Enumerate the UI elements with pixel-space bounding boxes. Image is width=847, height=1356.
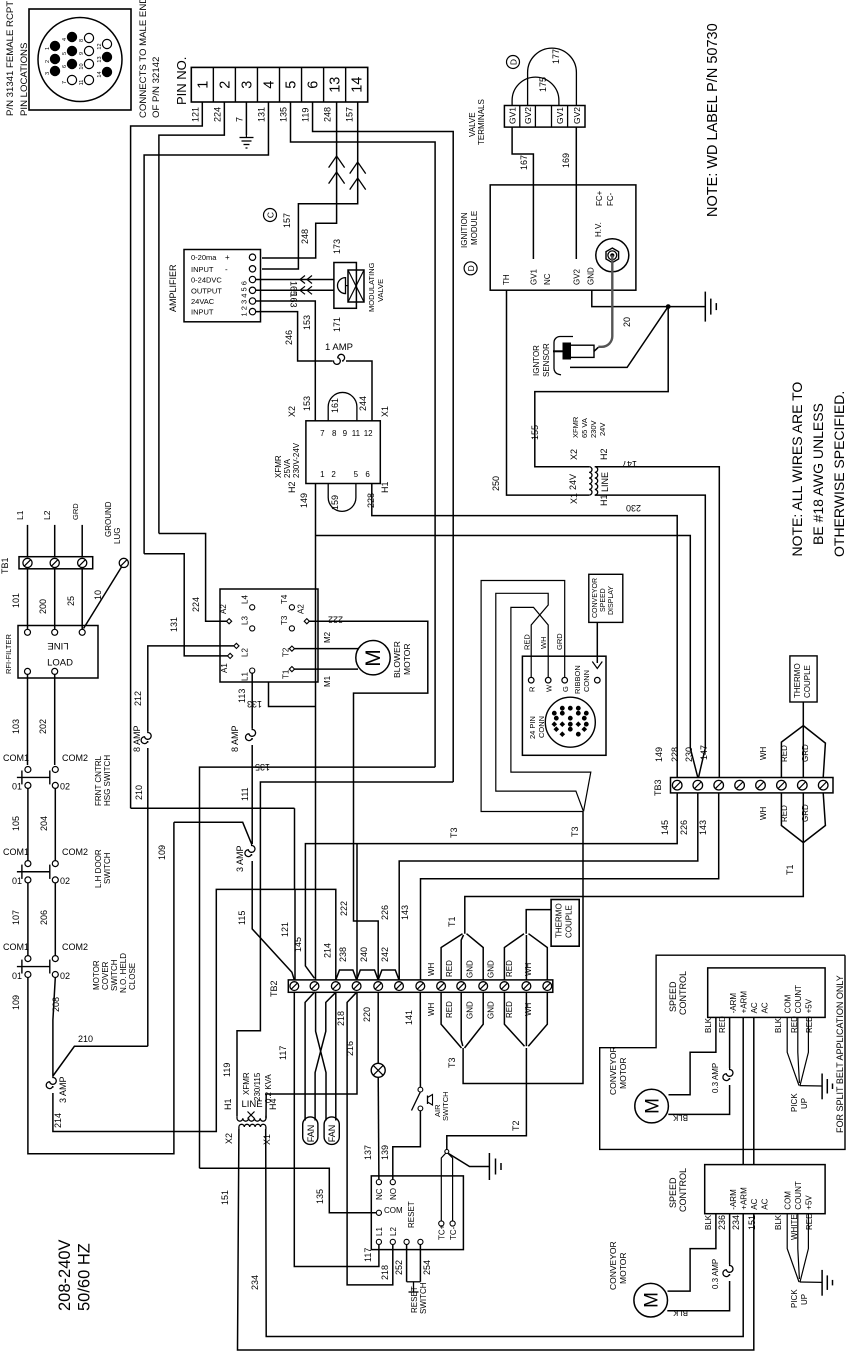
svg-text:TH: TH: [502, 274, 511, 285]
ground lug screw: [119, 558, 128, 567]
jumper bump 240 TB2 screws4-5: [357, 947, 379, 980]
label T1 right: [785, 864, 795, 875]
label 173: [332, 239, 342, 254]
svg-text:25: 25: [66, 596, 76, 606]
svg-text:TB2: TB2: [269, 980, 279, 997]
blower motor M1 circle: [356, 641, 390, 675]
svg-text:LOAD: LOAD: [47, 658, 73, 669]
wire 210 diag segment to 8AMP line: [53, 1034, 148, 1076]
wire 107 S2 to S3: [11, 883, 28, 956]
connector chevrons on wire 248: [329, 156, 345, 184]
svg-text:230V-24V: 230V-24V: [292, 442, 301, 478]
svg-text:WH: WH: [759, 806, 768, 820]
svg-text:210: 210: [78, 1034, 93, 1044]
text 208-240V 50/60 HZ: [56, 1239, 94, 1311]
node D circled (valve): [507, 56, 520, 69]
bundle above TB2 right (thermo couple to screws 11,12,13): [504, 910, 551, 980]
label BLK rotated 180 motor1: [672, 1113, 688, 1122]
svg-text:226: 226: [679, 820, 689, 835]
text TB1: [0, 557, 10, 574]
svg-text:4: 4: [62, 38, 68, 41]
svg-text:24 PIN: 24 PIN: [528, 716, 537, 739]
wire L1 stub above TB1: [15, 510, 28, 556]
svg-text:155: 155: [530, 425, 540, 440]
wire 236 RED 0.3AMP speed ctrl 2 to motor: [667, 1214, 733, 1311]
svg-text:3: 3: [45, 72, 51, 75]
svg-text:GV2: GV2: [573, 268, 582, 285]
wire 10 ground lug to RFI GRD pin: [84, 567, 122, 629]
switch S2 L.H DOOR (pushbutton): [17, 861, 58, 883]
svg-text:SPEED: SPEED: [668, 1177, 678, 1208]
svg-text:0.3 AMP: 0.3 AMP: [711, 1259, 720, 1289]
svg-text:3: 3: [239, 81, 255, 89]
wire 200 TB1 to RFI filter: [38, 569, 55, 629]
svg-text:INPUT: INPUT: [191, 265, 214, 274]
svg-text:RED: RED: [445, 960, 454, 977]
RFI filter box: [18, 626, 98, 679]
thermo couple box 2: [551, 900, 579, 947]
speed control 1 box: [708, 968, 825, 1018]
label 248 mid: [300, 229, 310, 244]
amplifier box U1: [184, 250, 261, 322]
24 pin connector box: [522, 656, 606, 755]
svg-text:PICK: PICK: [790, 1093, 799, 1112]
svg-text:VALVE: VALVE: [376, 279, 385, 302]
svg-text:COM2: COM2: [62, 753, 88, 763]
svg-text:228: 228: [366, 493, 376, 508]
svg-text:1 2 3 4 5 6: 1 2 3 4 5 6: [240, 281, 249, 316]
thermo couple box 1: [790, 656, 817, 702]
svg-text:T1: T1: [447, 916, 457, 927]
svg-text:CONN: CONN: [582, 670, 591, 692]
svg-text:149: 149: [654, 747, 664, 762]
svg-text:AC: AC: [750, 1198, 759, 1209]
wire lamp to NC pin 137: [363, 1077, 379, 1179]
wire 218 TB2 screw4 to temp controller L2: [347, 992, 393, 1285]
wires AC pass through to assembly 2: [743, 1017, 754, 1164]
svg-text:208-240V: 208-240V: [56, 1239, 74, 1311]
wire 7 pin3 to chassis ground: [245, 102, 247, 135]
svg-text:105: 105: [11, 816, 21, 831]
valve terminals strip: [504, 106, 585, 128]
wire fan c TB2 screw3 to left fan (crossover): [315, 992, 336, 1120]
text IGNITION MODULE: [460, 211, 479, 248]
HV terminal circle: [596, 239, 629, 272]
svg-text:SWITCH: SWITCH: [441, 1091, 450, 1121]
svg-text:236: 236: [717, 1215, 727, 1230]
svg-text:1 AMP: 1 AMP: [325, 342, 353, 353]
svg-text:M: M: [362, 649, 385, 667]
svg-text:BE #18 AWG UNLESS: BE #18 AWG UNLESS: [810, 403, 826, 545]
svg-text:230V: 230V: [589, 420, 598, 438]
label 230 (rotated 180): [626, 503, 641, 513]
temp controller pin labels: [375, 1188, 458, 1240]
modulating valve semicircle actuator: [338, 278, 349, 294]
labels RED WH GRD above 24pin: [523, 633, 565, 650]
wires COM COUNT 5V to pickup 2: [774, 1213, 814, 1282]
text BLOWER MOTOR: [392, 641, 412, 678]
wire 234 X1 to speed control AC: [250, 1129, 743, 1337]
svg-text:T4: T4: [280, 594, 289, 604]
svg-text:218: 218: [380, 1265, 390, 1280]
svg-text:TB3: TB3: [653, 779, 663, 796]
wire 204 S1 to S2: [39, 788, 55, 860]
svg-text:GRD: GRD: [71, 503, 80, 520]
svg-text:0-20ma: 0-20ma: [191, 253, 217, 262]
svg-text:MOTOR: MOTOR: [92, 960, 101, 990]
svg-text:+: +: [225, 253, 230, 262]
svg-text:14: 14: [350, 77, 366, 93]
wire display to ribbon conn chevron: [592, 622, 602, 668]
wire 151 X2 to speed control AC: [220, 1129, 754, 1350]
svg-text:5: 5: [354, 470, 359, 479]
svg-text:SWITCH: SWITCH: [103, 852, 112, 884]
wire 222 contactor A2 to TB2 screw5: [309, 615, 427, 980]
svg-text:A2: A2: [219, 604, 228, 614]
svg-text:WH: WH: [427, 1002, 436, 1016]
svg-text:COUNT: COUNT: [794, 985, 803, 1014]
svg-text:LUG: LUG: [113, 528, 122, 544]
jumper bump 242 TB2 screws5-6: [378, 947, 399, 980]
svg-text:XFMR: XFMR: [571, 416, 580, 438]
svg-text:101: 101: [11, 593, 21, 608]
text XFMR 25VA 230V-24V: [274, 442, 301, 478]
24 pin conn R W G ribbon pins: [528, 677, 601, 692]
bundle above TB2 left (T1 to screws 8,9,10): [441, 843, 803, 980]
svg-text:9: 9: [79, 52, 85, 55]
svg-text:BLK: BLK: [774, 1214, 783, 1230]
wire 119 horizontal branch to x260.4: [237, 782, 453, 1116]
text XFMR 65 VA 230V 24V: [571, 416, 607, 438]
wire 163 amplifier OUTPUT to modulating valve: [256, 286, 334, 294]
svg-text:157: 157: [345, 107, 355, 122]
svg-text:228: 228: [670, 747, 680, 762]
wire TC+ TC- to junction: [441, 1153, 452, 1221]
fuse F3 8 AMP: [230, 689, 262, 752]
label T3 near cable: [570, 826, 580, 837]
wire 139 NO to air switch: [380, 1111, 420, 1179]
wire 131 into contactor A1: [144, 554, 227, 656]
wire fan d TB2 screw3 to right fan: [335, 992, 337, 1120]
switch S1 FRNT CNTRL HSG (pushbutton): [17, 767, 58, 789]
wire 244 fuse to XFMR X1 pin12: [346, 361, 372, 421]
svg-text:7: 7: [320, 429, 325, 438]
svg-text:FRNT CNTRL: FRNT CNTRL: [94, 755, 103, 806]
svg-text:01: 01: [12, 876, 22, 886]
svg-text:5: 5: [284, 81, 300, 89]
svg-text:+5V: +5V: [805, 998, 814, 1013]
svg-text:L2: L2: [241, 648, 250, 657]
svg-text:OF P/N 32142: OF P/N 32142: [151, 57, 162, 118]
wire TH 250 ignition to 65VA xfmr X1: [491, 290, 589, 495]
text SPEED CONTROL 1: [668, 971, 688, 1015]
connector J1 circle: [38, 18, 122, 102]
svg-text:7: 7: [62, 81, 68, 84]
wire 224 into contactor A2: [159, 534, 227, 622]
svg-text:BLK: BLK: [774, 1017, 783, 1033]
svg-text:COUPLE: COUPLE: [565, 905, 574, 938]
labels H1 LINE H4 X2 X1 on 0.2KVA xfmr: [223, 1098, 278, 1145]
labels GND RED WH above TB2 right: [487, 960, 534, 978]
svg-text:TB1: TB1: [0, 557, 10, 574]
svg-text:01: 01: [12, 971, 22, 981]
svg-text:RESET: RESET: [410, 1286, 419, 1313]
svg-text:FAN: FAN: [306, 1125, 316, 1143]
svg-text:MOTOR: MOTOR: [618, 1253, 628, 1284]
speed control 1 pin labels: [729, 985, 814, 1014]
text NOTE ALL WIRES: [789, 382, 847, 557]
svg-text:218: 218: [336, 1011, 346, 1026]
svg-text:121: 121: [190, 107, 200, 122]
fuse F4 3 AMP: [46, 1076, 68, 1103]
svg-text:NOTE: WD LABEL P/N 50730: NOTE: WD LABEL P/N 50730: [705, 23, 721, 217]
wire 135 into COM: [200, 1168, 377, 1213]
wire 210 chain (121 to 3AMP diag): [131, 785, 295, 808]
svg-text:RED: RED: [505, 1001, 514, 1018]
amplifier labels and pins: [191, 253, 256, 316]
wire 145 TB3 screw1 to TB2 screw2: [305, 793, 677, 978]
svg-text:224: 224: [212, 107, 222, 122]
svg-text:COUNT: COUNT: [794, 1181, 803, 1210]
labels below TB3: [660, 820, 708, 835]
wire 135 horizontal branch to x199.5: [200, 767, 436, 1168]
svg-text:8: 8: [332, 429, 337, 438]
svg-text:242: 242: [380, 947, 390, 962]
label 147 (rotated 180): [622, 459, 637, 469]
text THERMO COUPLE 2: [555, 903, 574, 938]
wire 230 xfmr 65VA H1 to TB3 screw2: [595, 495, 706, 777]
svg-text:119: 119: [222, 1063, 232, 1077]
wire M1 contactor T1 to blower motor: [295, 669, 359, 687]
svg-text:NC: NC: [543, 273, 552, 285]
wire 149 branch to TB3 screw2: [316, 536, 698, 778]
svg-text:BLK: BLK: [704, 1214, 713, 1230]
svg-text:248: 248: [323, 107, 333, 122]
svg-text:5: 5: [62, 52, 68, 55]
labels above TB3: [654, 745, 709, 762]
label 157 mid: [282, 213, 292, 228]
svg-text:L1: L1: [375, 1227, 384, 1236]
svg-text:GRD: GRD: [801, 804, 810, 822]
svg-text:DISPLAY: DISPLAY: [608, 586, 615, 615]
svg-text:02: 02: [60, 971, 70, 981]
svg-text:6: 6: [306, 81, 322, 89]
svg-text:12: 12: [97, 43, 103, 49]
svg-text:133: 133: [247, 699, 262, 709]
svg-text:10: 10: [79, 63, 85, 69]
svg-text:3 AMP: 3 AMP: [58, 1076, 68, 1103]
svg-text:6: 6: [365, 470, 370, 479]
svg-text:VALVE: VALVE: [468, 112, 477, 137]
svg-text:13: 13: [97, 56, 103, 62]
svg-text:WH: WH: [539, 637, 548, 650]
label 165 (rotated): [289, 281, 299, 296]
svg-text:212: 212: [133, 691, 143, 706]
label BLK rotated 180 motor2: [672, 1308, 688, 1317]
wire 167 GV1 to ignition module: [512, 127, 533, 259]
svg-text:T3: T3: [449, 827, 459, 838]
svg-text:153: 153: [302, 315, 312, 330]
svg-text:N.O. HELD: N.O. HELD: [119, 953, 128, 993]
svg-text:CONN: CONN: [537, 716, 546, 738]
svg-text:COM1: COM1: [3, 942, 29, 952]
svg-text:+5V: +5V: [805, 1195, 814, 1210]
text label CONNECTS TO MALE END OF P/N 32142: [138, 0, 162, 118]
temp controller pins: [376, 1180, 455, 1245]
svg-text:X1: X1: [380, 406, 390, 417]
svg-text:250: 250: [491, 476, 501, 491]
bundle below TB3 to T1: [781, 793, 825, 843]
svg-text:230: 230: [626, 503, 641, 513]
svg-text:FC-: FC-: [606, 192, 615, 206]
text LINE (rotated 180) in RFI: [47, 640, 68, 651]
svg-text:244: 244: [358, 396, 368, 411]
text LOAD in RFI: [47, 658, 73, 669]
wire 117 TB2 screw1 to temp controller L1: [294, 992, 379, 1266]
wire 224 pin2 down left side: [159, 102, 224, 534]
ignitor sensor body: [553, 337, 598, 375]
svg-text:T3: T3: [280, 615, 289, 625]
svg-text:LINE: LINE: [600, 472, 610, 492]
node C circled: [264, 209, 277, 222]
svg-text:MOTOR: MOTOR: [402, 644, 412, 675]
svg-text:167: 167: [519, 155, 529, 170]
svg-text:145: 145: [660, 820, 670, 835]
svg-text:115: 115: [237, 911, 247, 925]
label T1 left: [447, 916, 457, 927]
svg-text:WH: WH: [427, 962, 436, 976]
wire 214 vertical link 294.5: [294, 808, 296, 889]
svg-text:13: 13: [328, 77, 344, 93]
svg-text:RESET: RESET: [407, 1201, 416, 1228]
svg-text:L2: L2: [389, 1227, 398, 1236]
text THERMO COUPLE 1: [793, 663, 812, 698]
wire 131 pin4 down left side: [144, 102, 268, 554]
svg-text:P/N 31341 FEMALE RCPT: P/N 31341 FEMALE RCPT: [5, 1, 16, 116]
svg-text:GV2: GV2: [523, 107, 533, 124]
svg-text:X2: X2: [569, 449, 579, 460]
label T3 label2: [449, 827, 459, 838]
labels below TB2 115 121 145: [278, 1046, 288, 1060]
svg-text:CONTROL: CONTROL: [678, 971, 688, 1015]
svg-text:GND: GND: [587, 267, 596, 285]
svg-text:246: 246: [284, 330, 294, 345]
svg-text:CONVEYOR: CONVEYOR: [608, 1046, 618, 1095]
jumper bump 238 TB2 screws3-4: [336, 947, 357, 980]
wire 228 xfmr H1 pin6 to TB3 screw1: [366, 484, 677, 778]
speed control 1 enclosure: [600, 955, 845, 1149]
svg-text:GND: GND: [487, 1001, 496, 1019]
wire 105 S1 to S2: [11, 788, 28, 860]
wire 208 S3-02 to 3AMP fuse F4: [51, 978, 61, 1077]
svg-text:202: 202: [38, 719, 48, 734]
wire 206 S2 to S3: [39, 883, 55, 956]
bundle above TB3 (screws 6,7,8): [781, 726, 825, 778]
svg-text:H2: H2: [599, 448, 609, 460]
svg-text:L4: L4: [240, 595, 249, 604]
svg-text:BLOWER: BLOWER: [392, 641, 402, 678]
svg-text:-ARM: -ARM: [729, 993, 738, 1014]
svg-text:CONTROL: CONTROL: [678, 1168, 688, 1212]
svg-text:RED: RED: [805, 1016, 814, 1033]
svg-text:A1: A1: [220, 663, 229, 673]
svg-text:D: D: [466, 265, 476, 271]
svg-text:238: 238: [338, 947, 348, 962]
text VALVE TERMINALS: [468, 99, 486, 145]
labels COM1 COM2 01 02 for S2: [3, 847, 88, 886]
svg-text:208: 208: [51, 997, 61, 1012]
fuse 1 AMP: [325, 342, 353, 364]
svg-text:2: 2: [331, 470, 336, 479]
wire 153 amplifier 24VAC to XFMR X2 pin7: [256, 301, 316, 421]
svg-text:THERMO: THERMO: [793, 663, 802, 698]
junction dot gnd: [666, 304, 671, 309]
lamp DS1: [371, 1063, 385, 1077]
svg-text:24V: 24V: [568, 474, 578, 490]
svg-text:OTHERWISE SPECIFIED.: OTHERWISE SPECIFIED.: [831, 391, 847, 557]
wires COM COUNT 5V to pickup 1: [774, 1016, 814, 1086]
modulating valve body: [334, 263, 357, 309]
labels 226 143 left: [380, 905, 410, 920]
svg-text:SENSOR: SENSOR: [542, 343, 551, 377]
text GROUND LUG: [104, 501, 122, 544]
svg-text:65 VA: 65 VA: [580, 418, 589, 438]
svg-text:T2: T2: [511, 1120, 521, 1131]
wire T2 junction up to bundle: [447, 1048, 527, 1150]
svg-text:02: 02: [60, 876, 70, 886]
wire 103 RFI to FRNT switch COM1: [11, 674, 28, 765]
svg-text:RFI-FILTER: RFI-FILTER: [4, 634, 13, 674]
svg-text:-: -: [225, 265, 228, 274]
svg-text:171: 171: [332, 317, 342, 332]
junction TC circle: [445, 1150, 449, 1154]
svg-text:L3: L3: [240, 616, 249, 625]
wire 157 pin14 to amplifier pin2: [262, 102, 358, 269]
svg-text:X1: X1: [569, 493, 579, 504]
svg-text:WH: WH: [759, 746, 768, 760]
wire H4 up from xfmr: [265, 1094, 267, 1119]
svg-text:SWITCH: SWITCH: [110, 959, 119, 991]
wire W pin crossover to bundle line1: [511, 607, 591, 811]
svg-text:121: 121: [280, 922, 290, 937]
svg-text:GND: GND: [487, 960, 496, 978]
text RFI-FILTER: [4, 634, 13, 674]
pickup ground 2: [800, 1270, 833, 1296]
svg-text:NOTE: ALL WIRES ARE TO: NOTE: ALL WIRES ARE TO: [789, 382, 805, 557]
svg-text:109: 109: [11, 995, 21, 1010]
text label P/N 31341 FEMALE RCPT PIN LOCATIONS: [5, 1, 30, 116]
svg-text:AC: AC: [761, 1002, 770, 1013]
wire TC junction to chassis ground: [449, 1154, 490, 1167]
svg-text:107: 107: [11, 910, 21, 925]
svg-text:GV1: GV1: [508, 107, 518, 124]
text CONVEYOR MOTOR 2: [608, 1241, 628, 1290]
svg-text:M: M: [643, 1098, 664, 1114]
connector chevrons on wire 157: [350, 162, 366, 190]
svg-text:H2: H2: [287, 481, 297, 493]
wire 145 branch to TB2 screw4: [356, 844, 358, 980]
wire RED 0.3AMP speed ctrl 1 to motor: [668, 1016, 733, 1115]
labels X2 X1 H2 H1 on 25VA xfmr: [287, 406, 390, 493]
svg-text:151: 151: [220, 1190, 230, 1205]
svg-text:1: 1: [45, 47, 51, 50]
labels COM1 COM2 01 02 for S3: [3, 942, 88, 981]
svg-text:GV1: GV1: [555, 107, 565, 124]
svg-text:24VAC: 24VAC: [191, 297, 215, 306]
wire from contactor bottom x268: [269, 682, 316, 707]
svg-text:24V: 24V: [598, 423, 607, 436]
svg-text:153: 153: [302, 396, 312, 411]
